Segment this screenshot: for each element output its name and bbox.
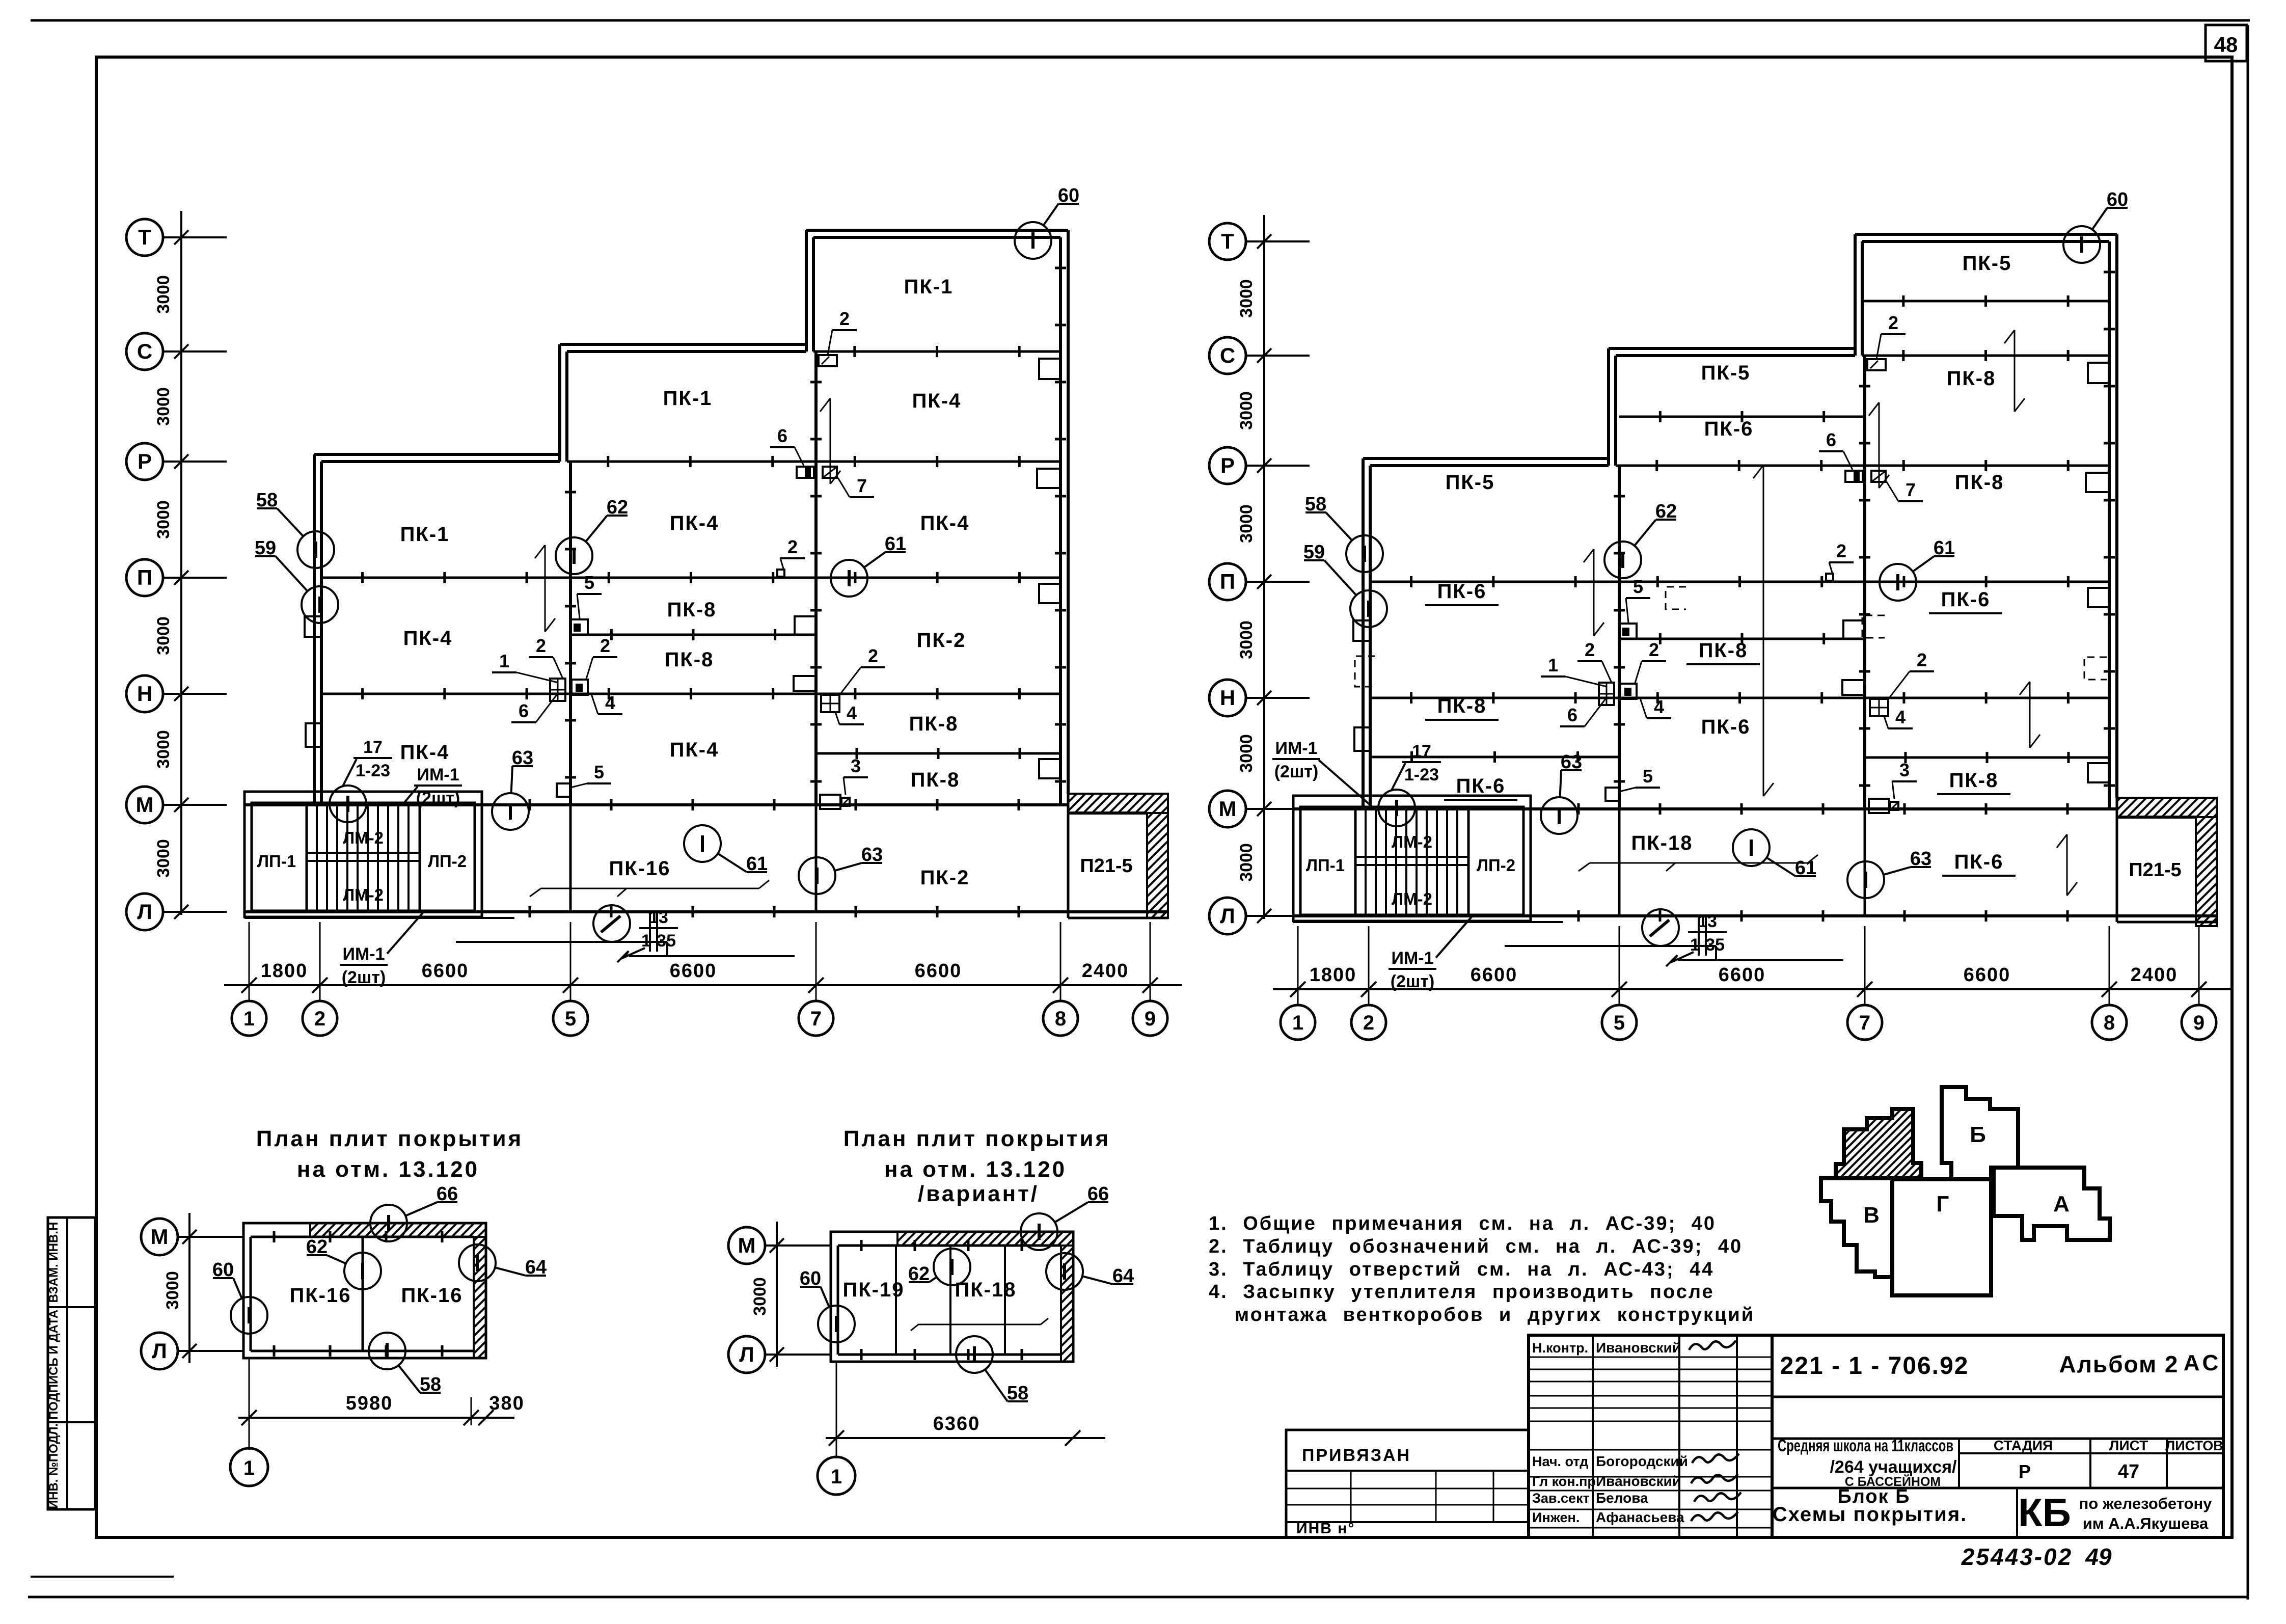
svg-text:ЛП-1: ЛП-1 [1306, 856, 1345, 875]
svg-text:Б: Б [1970, 1122, 1986, 1147]
svg-text:ПК-8: ПК-8 [1437, 695, 1487, 717]
svg-text:М: М [151, 1225, 169, 1249]
svg-text:6600: 6600 [1719, 964, 1766, 986]
svg-text:2: 2 [787, 536, 798, 557]
svg-text:62: 62 [607, 497, 628, 518]
svg-text:(2шт): (2шт) [416, 789, 460, 808]
svg-text:17: 17 [1412, 742, 1431, 761]
svg-text:58: 58 [1007, 1383, 1028, 1404]
svg-text:ПК-4: ПК-4 [670, 739, 719, 761]
svg-text:М: М [1219, 797, 1237, 821]
svg-text:1: 1 [243, 1457, 255, 1479]
svg-text:ПК-16: ПК-16 [609, 857, 671, 880]
svg-text:ЛМ-2: ЛМ-2 [1392, 832, 1432, 851]
svg-text:План плит покрытия: План плит покрытия [256, 1126, 523, 1151]
svg-text:им А.А.Якушева: им А.А.Якушева [2083, 1514, 2209, 1532]
svg-text:ПК-8: ПК-8 [665, 648, 714, 671]
svg-text:ПК-4: ПК-4 [400, 741, 450, 764]
svg-text:13: 13 [1698, 912, 1717, 931]
svg-text:3000: 3000 [163, 1271, 182, 1310]
svg-text:ЛИСТОВ: ЛИСТОВ [2165, 1438, 2223, 1453]
svg-text:ИМ-1: ИМ-1 [417, 765, 459, 784]
svg-text:66: 66 [1087, 1183, 1109, 1205]
svg-text:1: 1 [499, 651, 509, 671]
svg-text:ПК-8: ПК-8 [1949, 769, 1999, 792]
svg-text:Афанасьева: Афанасьева [1596, 1509, 1684, 1525]
svg-text:1: 1 [831, 1466, 842, 1488]
svg-text:3000: 3000 [1237, 734, 1256, 773]
svg-text:1: 1 [1548, 655, 1558, 675]
svg-text:ЛМ-2: ЛМ-2 [343, 828, 384, 847]
svg-text:62: 62 [306, 1236, 328, 1258]
svg-text:9: 9 [1145, 1008, 1156, 1030]
svg-text:6: 6 [1567, 705, 1577, 725]
svg-text:Средняя школа на 11классов: Средняя школа на 11классов [1778, 1436, 1953, 1455]
svg-text:(2шт): (2шт) [342, 968, 386, 987]
svg-text:5980: 5980 [346, 1393, 393, 1414]
svg-text:ПК-18: ПК-18 [1631, 832, 1693, 854]
svg-text:П21-5: П21-5 [2129, 859, 2181, 881]
svg-text:ПРИВЯЗАН: ПРИВЯЗАН [1302, 1446, 1411, 1465]
svg-text:60: 60 [212, 1259, 234, 1281]
svg-text:ИМ-1: ИМ-1 [1392, 949, 1434, 968]
svg-text:6600: 6600 [1471, 964, 1518, 986]
svg-text:221 - 1 - 706.92: 221 - 1 - 706.92 [1780, 1352, 1969, 1379]
svg-text:ПК-8: ПК-8 [909, 713, 959, 735]
svg-text:ПОДПИСЬ И ДАТА: ПОДПИСЬ И ДАТА [47, 1310, 61, 1420]
svg-text:61: 61 [1934, 537, 1955, 559]
svg-text:ПК-6: ПК-6 [1941, 588, 1991, 611]
svg-text:1-35: 1-35 [641, 931, 676, 951]
svg-text:ПК-1: ПК-1 [663, 387, 713, 410]
svg-text:3000: 3000 [1237, 504, 1256, 543]
svg-text:4. Засыпку утеплителя произв: 4. Засыпку утеплителя производить после [1209, 1281, 1715, 1303]
svg-text:1. Общие примечания см. на: 1. Общие примечания см. на л. АС-39; 40 [1209, 1213, 1716, 1234]
svg-text:17: 17 [363, 738, 383, 757]
svg-text:2: 2 [600, 635, 610, 656]
svg-text:Гл кон.пр: Гл кон.пр [1532, 1474, 1596, 1489]
svg-text:ПК-8: ПК-8 [667, 599, 717, 621]
svg-text:Богородский: Богородский [1596, 1453, 1688, 1469]
svg-text:ЛП-1: ЛП-1 [257, 852, 296, 871]
svg-text:ПК-5: ПК-5 [1446, 471, 1495, 494]
svg-text:ЛМ-2: ЛМ-2 [1392, 889, 1432, 908]
svg-text:Зав.сект: Зав.сект [1532, 1491, 1590, 1506]
svg-text:(2шт): (2шт) [1274, 762, 1319, 781]
svg-text:В: В [1863, 1203, 1880, 1228]
svg-text:/264 учащихся/: /264 учащихся/ [1830, 1457, 1957, 1477]
svg-text:Л: Л [152, 1339, 167, 1363]
svg-text:3: 3 [1899, 760, 1910, 780]
svg-text:4: 4 [1895, 707, 1906, 727]
svg-text:2: 2 [1363, 1012, 1374, 1034]
svg-text:ПК-5: ПК-5 [1701, 362, 1751, 384]
svg-text:2: 2 [536, 635, 546, 656]
svg-text:5: 5 [594, 762, 604, 782]
svg-text:Нач. отд: Нач. отд [1532, 1454, 1588, 1469]
svg-text:ПК-16: ПК-16 [290, 1284, 351, 1307]
svg-text:П: П [137, 565, 152, 589]
svg-text:Р: Р [138, 449, 152, 473]
svg-text:ЛП-2: ЛП-2 [428, 852, 467, 871]
svg-text:ПК-8: ПК-8 [1955, 471, 2004, 494]
svg-text:на отм. 13.120: на отм. 13.120 [884, 1157, 1067, 1182]
svg-text:Н: Н [137, 682, 152, 706]
svg-text:Л: Л [1220, 904, 1235, 928]
svg-text:А: А [2053, 1192, 2070, 1216]
svg-text:63: 63 [512, 747, 533, 769]
svg-text:СТАДИЯ: СТАДИЯ [1994, 1438, 2053, 1453]
svg-text:ПК-4: ПК-4 [403, 627, 453, 649]
svg-text:2: 2 [1888, 312, 1898, 333]
svg-text:монтажа венткоробов и други: монтажа венткоробов и других конструкций [1235, 1304, 1755, 1325]
svg-text:1: 1 [243, 1008, 255, 1030]
svg-text:ПК-1: ПК-1 [904, 276, 954, 298]
svg-text:Р: Р [2019, 1461, 2031, 1482]
svg-text:6600: 6600 [422, 960, 469, 982]
svg-text:5: 5 [565, 1008, 576, 1030]
svg-text:4: 4 [605, 692, 615, 713]
svg-text:ИНВ н°: ИНВ н° [1296, 1520, 1355, 1537]
svg-text:7: 7 [1859, 1012, 1870, 1034]
svg-text:ПК-8: ПК-8 [1947, 367, 1996, 390]
svg-text:ПК-2: ПК-2 [920, 867, 970, 889]
svg-text:1-35: 1-35 [1690, 935, 1725, 955]
svg-text:6600: 6600 [1964, 964, 2011, 986]
svg-text:Л: Л [137, 900, 152, 924]
svg-text:63: 63 [861, 844, 883, 865]
svg-text:ПК-4: ПК-4 [670, 512, 719, 534]
svg-text:ПК-16: ПК-16 [401, 1284, 463, 1307]
svg-text:6: 6 [519, 700, 529, 721]
svg-text:2: 2 [1585, 639, 1595, 660]
svg-text:ПК-4: ПК-4 [912, 390, 962, 412]
svg-text:60: 60 [2107, 189, 2128, 210]
svg-text:ЛП-2: ЛП-2 [1477, 856, 1515, 875]
svg-text:4: 4 [847, 702, 857, 723]
svg-text:Инжен.: Инжен. [1532, 1510, 1580, 1525]
svg-text:ПК-19: ПК-19 [843, 1279, 905, 1301]
svg-text:3000: 3000 [1237, 620, 1256, 659]
svg-text:25443-02: 25443-02 [1961, 1544, 2073, 1570]
svg-text:1800: 1800 [261, 960, 308, 982]
svg-text:6360: 6360 [933, 1413, 981, 1434]
svg-text:3000: 3000 [1237, 843, 1256, 882]
svg-text:С: С [137, 339, 152, 363]
svg-text:1: 1 [1292, 1012, 1303, 1034]
svg-text:48: 48 [2214, 33, 2238, 57]
svg-text:М: М [738, 1233, 756, 1257]
svg-text:Белова: Белова [1596, 1490, 1648, 1506]
svg-text:Г: Г [1937, 1192, 1949, 1216]
svg-text:П21-5: П21-5 [1080, 855, 1132, 877]
svg-text:на отм. 13.120: на отм. 13.120 [297, 1157, 479, 1182]
svg-text:М: М [136, 793, 154, 817]
svg-text:1-23: 1-23 [1404, 765, 1439, 784]
svg-text:59: 59 [1303, 542, 1325, 563]
svg-text:План плит покрытия: План плит покрытия [843, 1126, 1110, 1151]
svg-text:3: 3 [851, 755, 861, 776]
svg-text:4: 4 [1654, 696, 1664, 717]
svg-text:ВЗАМ. ИНВ.Н: ВЗАМ. ИНВ.Н [47, 1222, 61, 1303]
svg-text:ИМ-1: ИМ-1 [343, 944, 385, 964]
svg-text:ПК-1: ПК-1 [400, 523, 450, 546]
svg-text:59: 59 [255, 537, 276, 559]
svg-text:5: 5 [584, 572, 594, 593]
svg-text:5: 5 [1643, 766, 1653, 787]
svg-text:ПК-6: ПК-6 [1701, 716, 1751, 738]
svg-text:2: 2 [868, 645, 878, 666]
svg-text:Н.контр.: Н.контр. [1532, 1340, 1588, 1356]
svg-text:Т: Т [138, 225, 151, 249]
svg-text:61: 61 [746, 853, 768, 875]
svg-text:1-23: 1-23 [356, 761, 390, 780]
svg-text:6: 6 [1826, 429, 1836, 450]
svg-text:Н: Н [1220, 686, 1235, 710]
svg-text:П: П [1220, 570, 1235, 593]
svg-text:Альбом 2: Альбом 2 [2059, 1351, 2179, 1377]
svg-text:58: 58 [256, 490, 278, 511]
svg-text:7: 7 [1906, 479, 1916, 500]
svg-text:2: 2 [839, 308, 850, 329]
svg-text:ПК-6: ПК-6 [1456, 775, 1506, 797]
svg-text:по железобетону: по железобетону [2079, 1495, 2213, 1512]
svg-text:3000: 3000 [154, 275, 173, 314]
svg-text:2400: 2400 [2131, 964, 2178, 986]
svg-text:ПК-8: ПК-8 [1699, 639, 1748, 662]
svg-text:Схемы покрытия.: Схемы покрытия. [1773, 1503, 1968, 1526]
svg-text:63: 63 [1561, 751, 1582, 773]
svg-text:62: 62 [908, 1263, 930, 1285]
svg-text:3000: 3000 [154, 839, 173, 878]
svg-text:60: 60 [1058, 185, 1079, 206]
svg-text:6: 6 [777, 425, 787, 446]
svg-text:ПК-6: ПК-6 [1704, 418, 1754, 440]
svg-text:6600: 6600 [915, 960, 962, 982]
svg-text:3000: 3000 [154, 387, 173, 426]
svg-text:2: 2 [314, 1008, 325, 1030]
svg-text:Л: Л [739, 1342, 754, 1366]
svg-text:/вариант/: /вариант/ [918, 1181, 1039, 1206]
svg-text:ПК-8: ПК-8 [911, 769, 960, 791]
svg-text:6600: 6600 [670, 960, 717, 982]
svg-text:64: 64 [1112, 1265, 1134, 1287]
svg-text:380: 380 [489, 1393, 524, 1414]
svg-text:61: 61 [885, 533, 906, 555]
svg-text:58: 58 [420, 1374, 441, 1395]
svg-text:9: 9 [2193, 1012, 2205, 1034]
svg-text:(2шт): (2шт) [1391, 972, 1435, 991]
svg-text:3000: 3000 [154, 500, 173, 539]
svg-text:3000: 3000 [1237, 391, 1256, 430]
svg-text:2. Таблицу обозначений см. н: 2. Таблицу обозначений см. на л. АС-39; … [1209, 1236, 1743, 1257]
svg-text:64: 64 [525, 1257, 547, 1278]
svg-text:3000: 3000 [1237, 279, 1256, 318]
svg-text:2: 2 [1836, 540, 1846, 561]
svg-text:ЛИСТ: ЛИСТ [2109, 1438, 2148, 1453]
svg-text:63: 63 [1910, 848, 1931, 870]
svg-text:ИНВ. №ПОДЛ.: ИНВ. №ПОДЛ. [47, 1423, 61, 1509]
svg-text:60: 60 [800, 1268, 821, 1289]
svg-text:Т: Т [1221, 229, 1234, 253]
svg-text:Ивановский: Ивановский [1596, 1473, 1681, 1489]
svg-text:7: 7 [857, 475, 867, 496]
svg-text:ПК-5: ПК-5 [1963, 252, 2012, 275]
svg-text:49: 49 [2085, 1544, 2112, 1570]
svg-text:58: 58 [1305, 494, 1326, 515]
svg-text:КБ: КБ [2018, 1490, 2071, 1535]
svg-text:3. Таблицу отверстий см. н: 3. Таблицу отверстий см. на л. АС-43; 44 [1209, 1259, 1714, 1280]
svg-text:5: 5 [1614, 1012, 1625, 1034]
svg-text:ПК-6: ПК-6 [1954, 851, 2004, 873]
svg-text:2400: 2400 [1082, 960, 1129, 982]
svg-text:С: С [1220, 343, 1235, 367]
svg-text:ИМ-1: ИМ-1 [1275, 739, 1318, 758]
svg-text:5: 5 [1633, 576, 1643, 597]
svg-text:ПК-6: ПК-6 [1437, 580, 1487, 603]
svg-text:ПК-4: ПК-4 [920, 512, 970, 534]
svg-text:3000: 3000 [154, 616, 173, 655]
svg-text:7: 7 [810, 1008, 822, 1030]
svg-text:ЛМ-2: ЛМ-2 [343, 885, 384, 904]
svg-text:2: 2 [1649, 639, 1659, 660]
svg-text:66: 66 [437, 1183, 458, 1205]
svg-text:АС: АС [2184, 1350, 2221, 1375]
svg-text:2: 2 [1917, 649, 1927, 670]
svg-text:8: 8 [1055, 1008, 1066, 1030]
svg-text:47: 47 [2118, 1461, 2139, 1482]
svg-text:3000: 3000 [154, 730, 173, 769]
svg-text:ПК-2: ПК-2 [917, 629, 966, 652]
svg-text:Ивановский: Ивановский [1596, 1340, 1681, 1356]
svg-text:1800: 1800 [1310, 964, 1357, 986]
svg-text:Р: Р [1220, 453, 1235, 477]
svg-text:3000: 3000 [750, 1277, 770, 1316]
svg-text:62: 62 [1655, 501, 1677, 522]
svg-text:61: 61 [1795, 857, 1816, 879]
svg-text:13: 13 [649, 908, 668, 927]
svg-text:8: 8 [2104, 1012, 2115, 1034]
